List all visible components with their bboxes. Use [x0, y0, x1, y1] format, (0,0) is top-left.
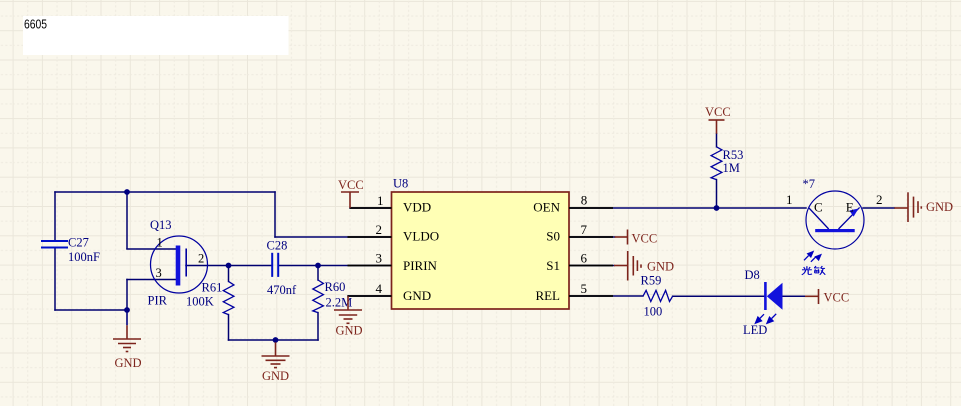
- svg-text:R61: R61: [202, 281, 223, 295]
- svg-text:VLDO: VLDO: [403, 229, 439, 244]
- svg-text:470nf: 470nf: [267, 283, 297, 297]
- svg-text:GND: GND: [647, 260, 674, 274]
- svg-text:2: 2: [198, 252, 204, 266]
- svg-text:GND: GND: [926, 200, 953, 214]
- svg-text:VDD: VDD: [403, 200, 431, 215]
- svg-text:R53: R53: [723, 148, 744, 162]
- svg-text:2: 2: [376, 222, 383, 237]
- svg-text:7: 7: [581, 222, 588, 237]
- svg-text:6605: 6605: [24, 17, 47, 31]
- svg-text:GND: GND: [336, 324, 363, 338]
- svg-text:6: 6: [581, 251, 588, 266]
- svg-text:5: 5: [581, 281, 588, 296]
- svg-text:Q13: Q13: [150, 218, 172, 232]
- svg-text:100nF: 100nF: [68, 250, 100, 264]
- svg-text:GND: GND: [262, 369, 289, 383]
- svg-text:VCC: VCC: [824, 291, 850, 305]
- svg-text:8: 8: [581, 193, 588, 208]
- svg-text:4: 4: [376, 281, 383, 296]
- svg-text:S1: S1: [546, 258, 560, 273]
- svg-text:C28: C28: [267, 238, 288, 252]
- svg-text:GND: GND: [403, 288, 431, 303]
- svg-text:LED: LED: [743, 323, 767, 337]
- svg-text:C27: C27: [68, 236, 89, 250]
- svg-text:1M: 1M: [723, 161, 740, 175]
- svg-text:E: E: [846, 200, 854, 215]
- svg-text:VCC: VCC: [705, 105, 731, 119]
- svg-text:PIRIN: PIRIN: [403, 258, 438, 273]
- svg-text:*7: *7: [803, 177, 816, 191]
- svg-text:100: 100: [644, 305, 663, 319]
- svg-text:REL: REL: [535, 288, 560, 303]
- svg-text:VCC: VCC: [632, 232, 658, 246]
- svg-text:1: 1: [377, 193, 384, 208]
- svg-text:VCC: VCC: [338, 178, 364, 192]
- svg-text:R59: R59: [641, 274, 662, 288]
- svg-text:1: 1: [157, 236, 163, 250]
- svg-text:D8: D8: [745, 268, 760, 282]
- svg-text:PIR: PIR: [148, 294, 168, 308]
- svg-text:U8: U8: [393, 177, 408, 191]
- svg-text:3: 3: [376, 251, 383, 266]
- svg-text:100K: 100K: [186, 295, 214, 309]
- svg-text:GND: GND: [115, 356, 142, 370]
- svg-text:S0: S0: [546, 229, 560, 244]
- svg-text:C: C: [814, 200, 823, 215]
- svg-text:OEN: OEN: [533, 200, 560, 215]
- svg-text:R60: R60: [325, 280, 346, 294]
- svg-text:2: 2: [876, 192, 883, 207]
- svg-text:1: 1: [786, 192, 793, 207]
- svg-text:3: 3: [156, 266, 162, 280]
